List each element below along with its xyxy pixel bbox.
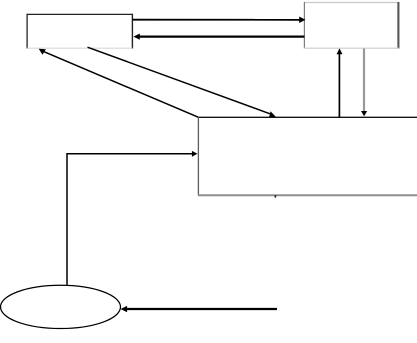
arrow box2 to box1 (thick horizontal, arrowhead left): [133, 34, 304, 40]
ellipse: [1, 285, 121, 328]
arrow box1 to box-middle (diagonal, arrowhead lower-right): [88, 47, 277, 117]
box top-right: [304, 2, 399, 49]
tick on box-middle bottom edge: [275, 195, 277, 197]
arrow box-middle up to box2 (vertical, arrowhead up): [337, 48, 343, 117]
arrow box-middle to box1 (diagonal, arrowhead upper-left): [39, 49, 199, 117]
box top-left: [27, 14, 133, 49]
arrow box2 down to box-middle (gray line, black arrowhead down): [361, 49, 367, 117]
arrow right to ellipse (thick horizontal, arrowhead left): [121, 306, 278, 312]
arrow box1 to box2 (top horizontal, arrowhead right): [132, 17, 305, 24]
connector ellipse to box-middle (L-shape, arrowhead right): [67, 151, 198, 285]
box middle: [198, 117, 417, 196]
